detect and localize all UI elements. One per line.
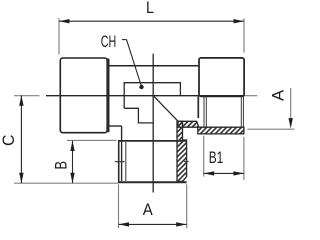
svg-text:A: A — [143, 200, 154, 219]
svg-text:L: L — [146, 0, 154, 17]
svg-text:B: B — [52, 161, 71, 170]
svg-text:A: A — [268, 89, 287, 101]
svg-text:B1: B1 — [209, 148, 224, 167]
svg-text:CH: CH — [101, 32, 117, 51]
svg-text:C: C — [0, 134, 18, 146]
